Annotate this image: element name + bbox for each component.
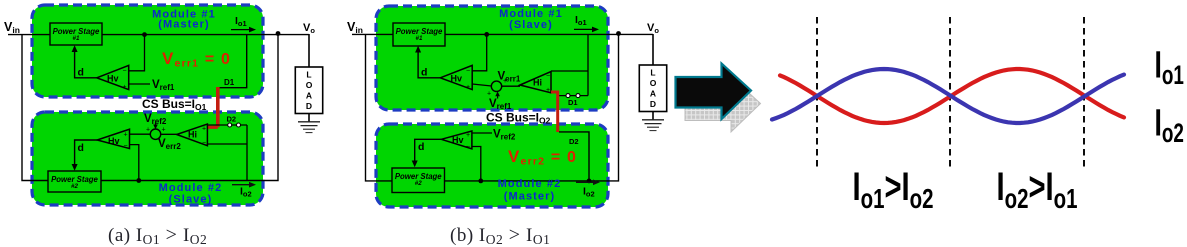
module #2 (Master) box (b) bbox=[376, 124, 608, 207]
wire main output module 1 (a) bbox=[102, 34, 309, 36]
wire to D1 (a) bbox=[216, 35, 246, 88]
big arrow bbox=[676, 64, 752, 120]
svg-text:d: d bbox=[78, 67, 84, 79]
wire Hv1 plus to circle (b) bbox=[472, 84, 492, 86]
load + ground (a) bbox=[308, 34, 310, 67]
op-amp Hv module 1 (a) bbox=[97, 65, 129, 89]
svg-text:#1: #1 bbox=[73, 35, 80, 42]
svg-text:d: d bbox=[421, 67, 427, 79]
svg-text:D2: D2 bbox=[569, 137, 579, 146]
wire Hv2 minus to output (a) bbox=[130, 145, 139, 181]
wire Hi minus input (a) bbox=[207, 143, 247, 145]
svg-text:−: − bbox=[466, 68, 470, 75]
label Io2&gt;Io1 bbox=[997, 165, 1078, 215]
curve Io2 red bbox=[780, 69, 1124, 123]
svg-text:#2: #2 bbox=[415, 180, 422, 187]
wire Hi top input (b) bbox=[551, 70, 588, 72]
curve Io1 blue bbox=[772, 69, 1124, 123]
wire Vin to power stage 1 (a) bbox=[8, 34, 50, 36]
wire output tap vertical (b) bbox=[587, 34, 589, 95]
wire D1 (b) bbox=[558, 95, 589, 97]
summing node module 2 (a) bbox=[150, 129, 160, 139]
junction dot output feedback (a) bbox=[136, 178, 141, 183]
svg-text:Hv: Hv bbox=[451, 74, 463, 84]
svg-text:Hi: Hi bbox=[533, 78, 542, 88]
svg-text:(Master): (Master) bbox=[158, 19, 210, 31]
wire Vref2 stub (a) bbox=[155, 123, 157, 128]
svg-text:#1: #1 bbox=[416, 35, 423, 42]
svg-text:Hv: Hv bbox=[108, 136, 120, 146]
power stage #2 (b) bbox=[392, 168, 445, 193]
junction node output (b) bbox=[616, 31, 621, 36]
wire Vin down to module 2 (b) bbox=[366, 34, 393, 181]
svg-text:Hv: Hv bbox=[452, 135, 464, 145]
svg-text:+: + bbox=[546, 87, 550, 94]
wire d to power stage 2 (a) bbox=[75, 140, 98, 168]
wire Vin down to module 2 (a) bbox=[22, 35, 48, 181]
svg-text:−: − bbox=[546, 73, 550, 80]
svg-text:−: − bbox=[123, 68, 127, 75]
svg-text:+: + bbox=[466, 84, 470, 91]
junction dot (b mod2) bbox=[478, 179, 483, 184]
svg-text:d: d bbox=[418, 141, 424, 153]
svg-text:−: − bbox=[202, 140, 206, 147]
svg-text:D: D bbox=[306, 101, 312, 111]
svg-text:+: + bbox=[466, 132, 470, 139]
svg-text:D: D bbox=[650, 99, 656, 109]
wire d to power stage 1 (b) bbox=[418, 49, 440, 78]
module #1 (Slave) box (b) bbox=[376, 6, 608, 110]
wire D2 corner (b) bbox=[559, 132, 589, 181]
CS bus red line (a) bbox=[216, 87, 220, 127]
arrow Io2 (a) bbox=[232, 184, 251, 186]
svg-text:+: + bbox=[124, 132, 128, 139]
svg-text:Module #2: Module #2 bbox=[498, 178, 562, 190]
op-amp Hv module 2 (a) bbox=[97, 129, 129, 148]
svg-text:Hi: Hi bbox=[188, 130, 197, 140]
dashed line 3 bbox=[1083, 17, 1085, 168]
svg-text:+: + bbox=[162, 127, 166, 134]
wire Vref2 (b) bbox=[472, 132, 492, 134]
wire D2 top (a) bbox=[207, 124, 247, 126]
wire Vin to power stage 1 (b) bbox=[352, 33, 393, 35]
junction dot feedback tap (b) bbox=[484, 32, 489, 37]
op-amp Hv module 2 (b) bbox=[441, 131, 472, 149]
arrow Io1 (a) bbox=[231, 29, 251, 31]
arrow Io1 (b) bbox=[574, 28, 594, 30]
arrow Io2 (b) bbox=[576, 181, 595, 183]
dashed line 2 bbox=[949, 17, 951, 168]
wire Hi output to circle (a) bbox=[161, 133, 177, 135]
junction dot D2 (b) bbox=[587, 179, 592, 184]
svg-text:d: d bbox=[78, 142, 84, 154]
wire Hv2 minus to output (b) bbox=[472, 147, 481, 181]
label Io2 right bbox=[1155, 101, 1184, 148]
module #1 (Master) box (a) bbox=[32, 5, 263, 97]
op-amp Hi (a) bbox=[177, 124, 208, 146]
svg-text:Module #2: Module #2 bbox=[159, 182, 223, 194]
module #2 (Slave) box (a) bbox=[32, 112, 263, 205]
junction dot feedback tap (a) bbox=[142, 32, 147, 37]
label Io1 right bbox=[1155, 43, 1184, 90]
wire module 2 output (b) bbox=[445, 34, 619, 181]
svg-text:(Master): (Master) bbox=[504, 191, 556, 203]
big arrow shadow bbox=[685, 77, 761, 133]
op-amp Hi (b) bbox=[520, 72, 551, 93]
power stage #2 (a) bbox=[48, 171, 101, 192]
svg-text:L: L bbox=[306, 70, 311, 80]
svg-text:−: − bbox=[124, 143, 128, 150]
svg-text:L: L bbox=[650, 68, 655, 78]
diode D1 terminals (b) bbox=[566, 94, 570, 98]
wire Vref1 stub (b) bbox=[497, 93, 499, 99]
svg-text:+: + bbox=[487, 91, 491, 98]
wire d to power stage 1 (a) bbox=[75, 48, 97, 78]
dashed line 1 bbox=[816, 17, 818, 168]
summing node module 1 (b) bbox=[491, 81, 501, 91]
wire feedback to Hv1 (a) bbox=[129, 35, 145, 71]
wire circle to Hv2 (a) bbox=[130, 133, 151, 135]
diode D2 terminals (a) bbox=[228, 123, 232, 127]
wire circle to Hi (b) bbox=[502, 85, 520, 87]
power stage #1 (a) bbox=[50, 23, 102, 45]
svg-text:+: + bbox=[146, 127, 150, 134]
label Io1&gt;Io2 bbox=[853, 165, 934, 215]
svg-text:D2: D2 bbox=[227, 115, 237, 124]
wire feedback to Hv1 (b) bbox=[472, 34, 487, 70]
svg-text:D1: D1 bbox=[568, 98, 578, 107]
power stage #1 (b) bbox=[393, 23, 445, 46]
svg-text:O: O bbox=[650, 78, 657, 88]
svg-text:(Slave): (Slave) bbox=[169, 194, 213, 206]
load + ground (b) bbox=[652, 34, 654, 65]
svg-text:Hv: Hv bbox=[107, 74, 119, 84]
CS bus red line (b) bbox=[551, 91, 558, 133]
svg-text:O: O bbox=[306, 80, 313, 90]
wire module 2 output (a) bbox=[101, 34, 278, 181]
wire main output module 1 (b) bbox=[445, 33, 653, 35]
svg-text:#2: #2 bbox=[71, 183, 78, 190]
svg-text:+: + bbox=[202, 126, 206, 133]
wire D2 vertical to output (a) bbox=[246, 125, 248, 181]
wire Vref1 (a) bbox=[129, 83, 150, 85]
op-amp Hv module 1 (b) bbox=[440, 65, 472, 89]
svg-text:(Slave): (Slave) bbox=[509, 19, 553, 31]
junction node output (a) bbox=[276, 31, 281, 36]
svg-text:+: + bbox=[123, 84, 127, 91]
svg-text:A: A bbox=[650, 89, 656, 99]
svg-text:−: − bbox=[466, 144, 470, 151]
wire d to power stage 2 (b) bbox=[415, 139, 442, 164]
svg-text:D1: D1 bbox=[224, 78, 235, 87]
svg-text:A: A bbox=[306, 91, 312, 101]
